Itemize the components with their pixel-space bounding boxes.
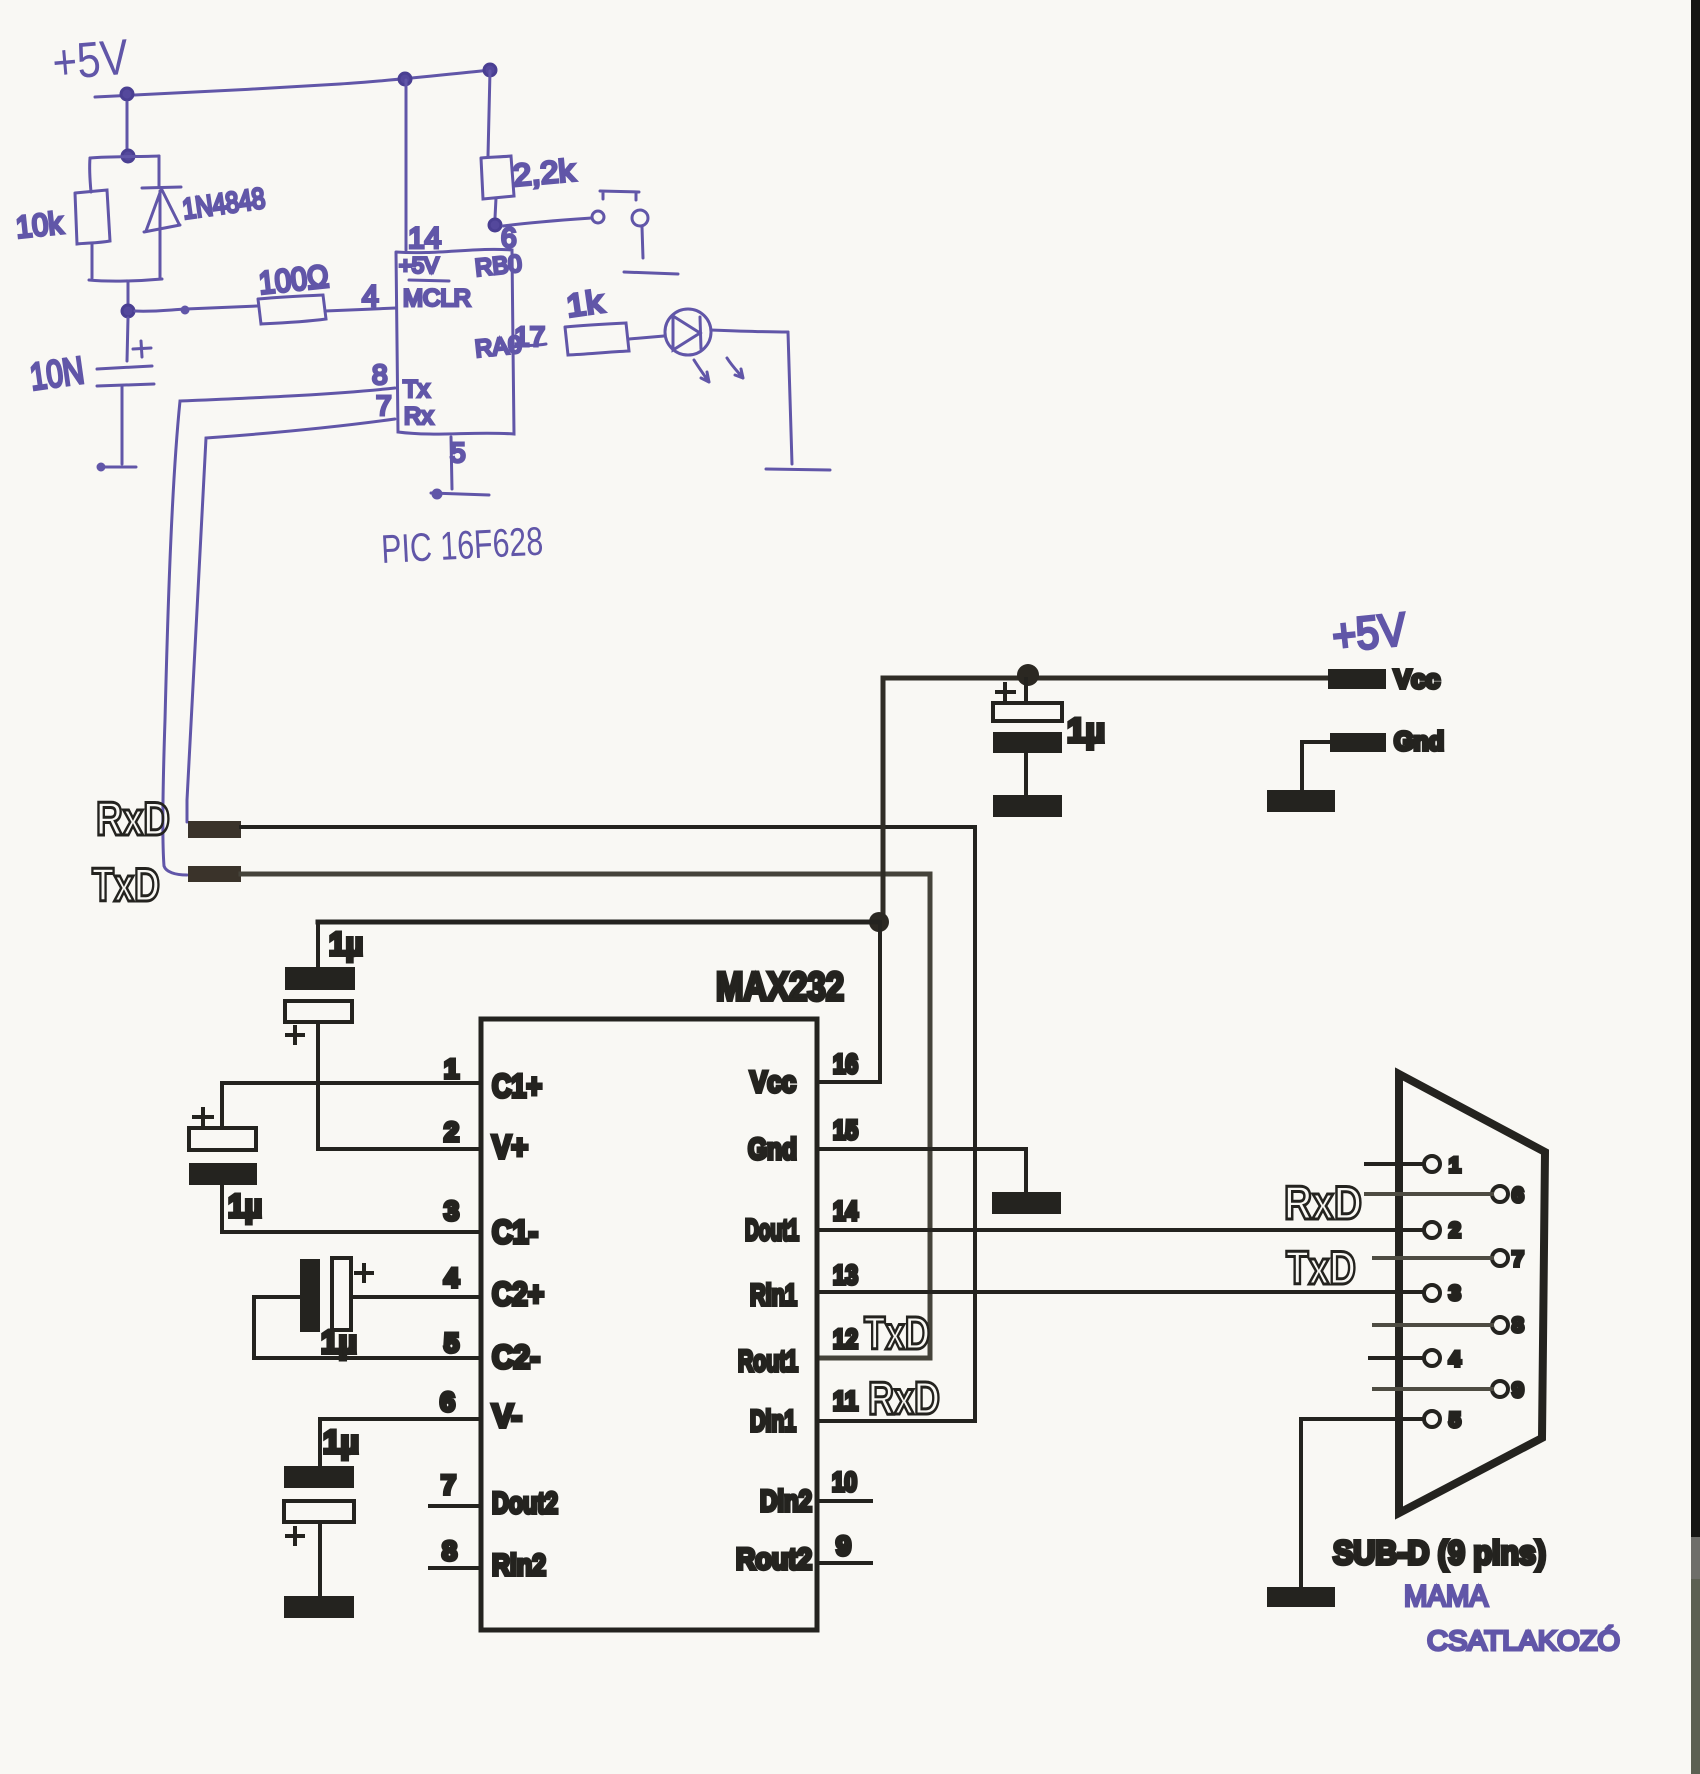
- svg-text:Tx: Tx: [403, 376, 430, 403]
- ground pad: [992, 1192, 1061, 1214]
- svg-text:14: 14: [408, 222, 441, 255]
- svg-text:9: 9: [1512, 1379, 1524, 1402]
- svg-text:1µ: 1µ: [1067, 712, 1105, 750]
- svg-text:Vcc: Vcc: [750, 1066, 796, 1099]
- svg-text:9: 9: [836, 1531, 851, 1561]
- resistor R4 1k body: [565, 323, 629, 355]
- svg-text:MCLR: MCLR: [403, 285, 471, 312]
- svg-text:Rin1: Rin1: [750, 1279, 797, 1312]
- svg-text:5: 5: [444, 1328, 459, 1358]
- wire: [121, 386, 124, 464]
- svg-text:Vcc: Vcc: [1394, 664, 1440, 694]
- svg-text:MAMA: MAMA: [1404, 1580, 1488, 1613]
- wire: [127, 281, 130, 304]
- resistor R2 100ohm body: [258, 295, 326, 324]
- svg-text:C1-: C1-: [492, 1214, 538, 1250]
- wire pin13 Rin1 to SUBD pin3: [819, 1290, 1424, 1294]
- capacitor C1 1u: [220, 1083, 224, 1128]
- wire pin8 stub: [430, 1566, 479, 1570]
- wire Vcc rail: [883, 678, 1328, 922]
- svg-text:+5V: +5V: [1330, 602, 1409, 661]
- wire: [495, 198, 496, 218]
- svg-text:4: 4: [362, 280, 379, 313]
- node junction dot: [1017, 664, 1039, 686]
- ground pad: [1267, 790, 1335, 812]
- connector pin 4 circle: [1424, 1350, 1440, 1366]
- svg-text:6: 6: [440, 1387, 455, 1417]
- svg-text:1µ: 1µ: [228, 1188, 262, 1224]
- svg-text:5: 5: [1449, 1409, 1461, 1432]
- node junction dot A: [121, 88, 133, 100]
- wire RxD to Din1: [241, 827, 975, 1421]
- wire to button: [503, 218, 591, 226]
- wire RA0 pin17: [513, 344, 546, 347]
- wire Gnd: [1302, 742, 1330, 791]
- connector pin 7 circle: [1492, 1250, 1508, 1266]
- svg-text:PIC 16F628: PIC 16F628: [380, 520, 544, 572]
- svg-text:Rout1: Rout1: [738, 1345, 798, 1378]
- capacitor C 10N plates: [97, 366, 154, 386]
- svg-text:8: 8: [1512, 1314, 1524, 1337]
- svg-text:7: 7: [376, 390, 392, 421]
- node RB0 junction dot: [489, 219, 501, 231]
- ground: [766, 469, 830, 470]
- wire Tx pin8 down to TxD pad: [163, 388, 395, 875]
- wire TxD to Rout1: [241, 874, 930, 1358]
- wire pin5: [451, 437, 452, 489]
- wire +5V rail top: [95, 70, 491, 97]
- IC U1 PIC16F628 body: [396, 249, 514, 434]
- svg-text:100Ω: 100Ω: [257, 258, 330, 301]
- capacitor C2 1u: [300, 1259, 320, 1332]
- svg-text:8: 8: [442, 1536, 457, 1566]
- svg-text:5: 5: [450, 437, 466, 468]
- connector pin 6 circle: [1492, 1186, 1508, 1202]
- ground pad: [993, 795, 1062, 817]
- connector pin 5 circle: [1424, 1411, 1440, 1427]
- wire: [135, 309, 186, 311]
- resistor R3 2,2k body: [481, 156, 514, 199]
- svg-text:+5V: +5V: [399, 253, 439, 278]
- ground pad: [284, 1596, 354, 1618]
- resistor R1 10k body: [75, 190, 110, 244]
- wire: [90, 158, 91, 192]
- wire: [158, 156, 161, 187]
- wire pin1 C1+: [222, 1081, 479, 1085]
- capacitor C5 1u decoupling: [997, 684, 1014, 700]
- wire: [127, 318, 128, 361]
- svg-text:2: 2: [1449, 1219, 1461, 1242]
- wire parallel-net top bar: [90, 156, 159, 158]
- wire: [91, 244, 94, 278]
- svg-text:RxD: RxD: [96, 792, 170, 845]
- svg-text:1k: 1k: [564, 283, 607, 324]
- svg-text:1N4848: 1N4848: [181, 183, 268, 226]
- wire Rx pin7 down to RxD pad: [187, 419, 395, 822]
- svg-text:16: 16: [833, 1049, 858, 1079]
- svg-text:TxD: TxD: [1286, 1241, 1356, 1294]
- wire pin2 V+: [318, 1147, 479, 1151]
- wire: [186, 306, 257, 309]
- svg-text:RxD: RxD: [868, 1372, 940, 1424]
- wire: [159, 191, 162, 278]
- wire pin6 V-: [320, 1417, 479, 1421]
- svg-text:1: 1: [1449, 1154, 1461, 1177]
- wire: [711, 330, 788, 332]
- svg-text:Dout1: Dout1: [745, 1214, 799, 1247]
- wire pin15 Gnd to ground: [819, 1149, 1026, 1192]
- wire Vcc to pin16: [819, 922, 880, 1082]
- svg-text:C2+: C2+: [492, 1276, 544, 1312]
- wire: [629, 336, 664, 339]
- svg-text:1µ: 1µ: [321, 1324, 357, 1360]
- svg-text:Rin2: Rin2: [492, 1549, 546, 1582]
- diode D1 1N4848: [142, 187, 181, 232]
- svg-text:Dout2: Dout2: [492, 1487, 558, 1520]
- svg-text:C1+: C1+: [492, 1068, 542, 1104]
- switch S1 push button: [592, 211, 604, 223]
- svg-text:3: 3: [1449, 1282, 1461, 1305]
- wire: [642, 227, 643, 258]
- svg-text:1µ: 1µ: [329, 926, 363, 962]
- svg-text:MAX232: MAX232: [716, 965, 844, 1009]
- connector J1 SUB-D body: [1399, 1074, 1545, 1513]
- IC U2 MAX232 body: [481, 1019, 817, 1630]
- svg-text:Gnd: Gnd: [748, 1133, 797, 1166]
- wire pin4 C2+: [351, 1295, 479, 1299]
- capacitor C4 1u at V-: [318, 1419, 322, 1466]
- svg-text:Din1: Din1: [750, 1405, 796, 1438]
- connector pin 8 circle: [1492, 1317, 1508, 1333]
- node small dot: [182, 307, 188, 313]
- node junction dot: [869, 912, 889, 932]
- LED D2: [665, 309, 711, 355]
- svg-text:V+: V+: [492, 1129, 528, 1165]
- node MCLR junction dot: [122, 305, 134, 317]
- svg-text:6: 6: [1512, 1184, 1524, 1207]
- connector pin 2 circle: [1424, 1222, 1440, 1238]
- connector pin 3 circle: [1424, 1285, 1440, 1301]
- svg-text:1µ: 1µ: [323, 1424, 359, 1460]
- svg-text:+5V: +5V: [50, 28, 131, 90]
- wire pin7 stub: [430, 1504, 479, 1508]
- svg-text:11: 11: [833, 1386, 858, 1416]
- wire pin3 C1-: [222, 1230, 479, 1234]
- svg-text:C2-: C2-: [492, 1339, 540, 1375]
- svg-text:14: 14: [833, 1196, 858, 1226]
- ground: [431, 493, 489, 495]
- wire pin5 C2-: [254, 1356, 479, 1360]
- node junction dot: [484, 64, 496, 76]
- connector pin 9 circle: [1492, 1381, 1508, 1397]
- svg-text:V-: V-: [492, 1398, 522, 1434]
- pad TxD: [188, 866, 241, 882]
- svg-text:4: 4: [1449, 1348, 1461, 1371]
- svg-text:12: 12: [833, 1324, 858, 1354]
- svg-text:13: 13: [833, 1260, 858, 1290]
- pad Vcc: [1328, 669, 1386, 689]
- wire: [126, 102, 129, 149]
- svg-text:Rout2: Rout2: [736, 1543, 812, 1576]
- svg-text:10N: 10N: [27, 350, 86, 399]
- scan edge strip: [1691, 0, 1700, 1537]
- pad RxD: [188, 821, 241, 838]
- wire pin14 Dout1 to SUBD pin2: [819, 1228, 1424, 1232]
- svg-text:2: 2: [444, 1117, 459, 1147]
- wire parallel-net bottom bar: [89, 279, 162, 281]
- svg-text:7: 7: [1512, 1248, 1524, 1271]
- svg-text:CSATLAKOZÓ: CSATLAKOZÓ: [1427, 1625, 1620, 1656]
- wire pin9 stub: [819, 1561, 871, 1565]
- svg-text:TxD: TxD: [864, 1307, 930, 1359]
- wire: [325, 308, 396, 311]
- svg-text:Rx: Rx: [404, 403, 433, 430]
- svg-text:10k: 10k: [14, 205, 65, 245]
- wire pin6 branch: [488, 71, 490, 156]
- svg-text:SUB-D (9 pins): SUB-D (9 pins): [1333, 1534, 1546, 1571]
- wire pin14: [405, 80, 408, 250]
- capacitor C 10N plus sign: [133, 341, 151, 357]
- node junction dot: [399, 73, 411, 85]
- LED arrows: [694, 360, 709, 382]
- svg-text:3: 3: [444, 1196, 459, 1226]
- connector pin 1 circle: [1424, 1156, 1440, 1172]
- pad Gnd: [1330, 733, 1386, 752]
- svg-text:Gnd: Gnd: [1394, 726, 1444, 756]
- svg-text:7: 7: [441, 1470, 456, 1500]
- svg-text:RB0: RB0: [474, 250, 523, 282]
- ground: [99, 466, 136, 469]
- wire pin10 stub: [819, 1499, 871, 1503]
- svg-text:10: 10: [832, 1467, 857, 1497]
- svg-text:TxD: TxD: [92, 858, 160, 911]
- svg-text:RxD: RxD: [1284, 1176, 1362, 1229]
- ground: [624, 272, 678, 274]
- label MCLR with overline: [409, 280, 449, 281]
- svg-text:2,2k: 2,2k: [512, 153, 577, 193]
- svg-text:8: 8: [372, 359, 388, 390]
- ground pad: [1267, 1587, 1335, 1607]
- wire: [788, 332, 792, 464]
- svg-text:4: 4: [444, 1263, 459, 1293]
- svg-text:Din2: Din2: [760, 1485, 812, 1518]
- svg-text:1: 1: [444, 1054, 459, 1084]
- node junction dot B: [122, 150, 134, 162]
- svg-text:15: 15: [833, 1115, 858, 1145]
